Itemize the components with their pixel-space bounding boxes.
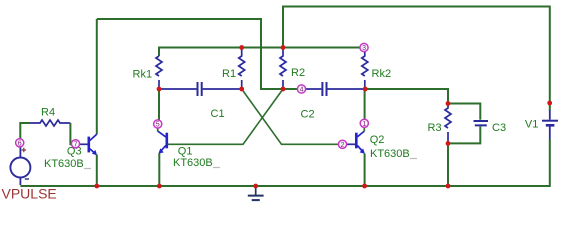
node 5 [154, 120, 162, 129]
capacitor C2 leads [306, 88, 365, 90]
transistor Q1 (mirrored, base on right) [158, 131, 167, 154]
node 1 [360, 119, 368, 128]
wire node 2 to Q2 base [347, 143, 356, 145]
wire C3 branch bottom [448, 127, 480, 144]
label underscore (Q2) [410, 158, 417, 160]
junction dot R3 bottom [446, 141, 451, 146]
svg-text:R2: R2 [291, 67, 305, 79]
junction dot rail Q2 emitter [362, 184, 367, 189]
battery V1 top lead [549, 110, 551, 120]
resistor R4 [30, 120, 70, 126]
junction dot R2 bottom [281, 87, 286, 92]
wire collector column Q1 [158, 89, 160, 120]
svg-text:4: 4 [300, 87, 304, 94]
wire Q3 emitter to rail [96, 155, 98, 187]
svg-text:V1: V1 [525, 119, 538, 131]
node 6 [16, 139, 24, 148]
capacitor C2 plates [322, 82, 326, 96]
svg-text:C2: C2 [301, 109, 315, 121]
resistor R1 [239, 48, 245, 89]
source VPULSE circle [10, 158, 30, 178]
svg-text:R4: R4 [41, 107, 55, 119]
capacitor C3 plates [474, 121, 489, 125]
node 4 [297, 85, 305, 94]
battery V1 plus dot [547, 101, 552, 106]
junction dot R3 top [446, 101, 451, 106]
wire top supply rail y=6.5 from x283 to x550 [283, 7, 550, 111]
junction dot rail R1 top [239, 45, 244, 50]
junction dot R1 bottom [239, 87, 244, 92]
svg-text:R3: R3 [428, 122, 442, 134]
svg-text:Rk1: Rk1 [133, 69, 153, 81]
svg-text:KT630B: KT630B [44, 158, 84, 170]
wire base rail y=47.5 from Rk1 to node 3 [159, 48, 360, 57]
junction dot Rk1 bottom [157, 87, 162, 92]
svg-text:KT630B: KT630B [370, 148, 410, 160]
wire VPULSE bottom stub [19, 178, 21, 185]
svg-text:3: 3 [362, 45, 366, 52]
svg-text:2: 2 [341, 142, 345, 149]
battery V1 short plate [546, 124, 555, 127]
wire R4 right column to node 7 [70, 123, 71, 144]
wire C3 branch top [448, 104, 480, 120]
svg-text:7: 7 [74, 141, 78, 148]
wire cross-coupling diagonal B (R2 bottom to Q1 base) [168, 89, 283, 144]
svg-text:C1: C1 [211, 108, 225, 120]
capacitor C1 plates [198, 82, 202, 96]
node 7 [71, 140, 79, 149]
svg-text:KT630B: KT630B [173, 157, 213, 169]
svg-text:6: 6 [18, 140, 22, 147]
source VPULSE plus mark [22, 148, 26, 152]
capacitor C1 leads [160, 88, 241, 90]
node 3 [360, 43, 368, 52]
wire R2 bottom to node 4 [283, 88, 297, 90]
svg-text:Rk2: Rk2 [372, 68, 392, 80]
node 2 [338, 140, 346, 149]
wire Q1 collector stub below node 5 [157, 128, 159, 132]
wire cross-coupling diagonal A (R1 bottom to Q2 base) [242, 89, 339, 144]
battery V1 bottom lead [549, 127, 551, 140]
junction dot Rk2 bottom [363, 87, 368, 92]
label underscore (Q3) [84, 168, 91, 170]
wire V1 bottom to rail [20, 139, 549, 186]
wire trigger net from Q3 collector to R2 bottom [97, 19, 283, 89]
transistor Q2 (base on left) [356, 131, 365, 154]
junction dot rail Q1 emitter [157, 184, 162, 189]
resistor Rk2 [362, 52, 368, 88]
svg-text:C3: C3 [492, 122, 506, 134]
svg-text:R1: R1 [222, 68, 236, 80]
wire Q1 emitter to rail [158, 153, 160, 186]
svg-text:Q2: Q2 [370, 134, 385, 146]
wire R4 left column [20, 123, 30, 139]
junction dot rail R2 top [281, 45, 286, 50]
junction dot rail R3 branch [446, 184, 451, 189]
source VPULSE top stub [19, 147, 21, 158]
wire node 7 to Q3 base [80, 143, 88, 145]
wire Q2 collector stub below node 1 [363, 128, 365, 132]
svg-text:5: 5 [156, 122, 160, 129]
svg-text:1: 1 [362, 121, 366, 128]
junction dot rail ground [253, 184, 258, 189]
label underscore (Q1) [213, 167, 220, 169]
ground [248, 186, 264, 200]
svg-text:Q1: Q1 [178, 145, 193, 157]
wire Q2 emitter to rail [364, 154, 366, 187]
wire R3 bottom to ground rail [447, 143, 449, 186]
wire Q3 collector vertical [96, 19, 98, 134]
wire collector column Q2 [364, 89, 366, 119]
resistor R3 [445, 104, 451, 144]
junction dot rail Q3 emitter [94, 184, 99, 189]
resistor Rk1 [156, 56, 162, 88]
transistor Q3 [89, 134, 97, 155]
source VPULSE minus mark [25, 178, 29, 180]
resistor R2 [280, 48, 286, 89]
wire Rk2 node to R3/C3 branch [366, 89, 449, 104]
battery V1 long plate [542, 120, 558, 122]
svg-text:VPULSE: VPULSE [2, 186, 57, 202]
